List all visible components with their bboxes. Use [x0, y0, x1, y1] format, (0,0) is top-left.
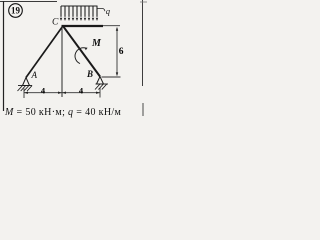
svg-text:19: 19 [11, 6, 21, 16]
svg-text:B: B [86, 69, 93, 79]
svg-text:M = 50 кН·м; q = 40 кН/м: M = 50 кН·м; q = 40 кН/м [4, 107, 122, 118]
svg-text:C: C [52, 17, 59, 27]
svg-text:M: M [91, 38, 102, 49]
svg-text:6: 6 [119, 47, 124, 57]
svg-text:q: q [106, 6, 111, 16]
svg-text:A: A [31, 70, 38, 80]
